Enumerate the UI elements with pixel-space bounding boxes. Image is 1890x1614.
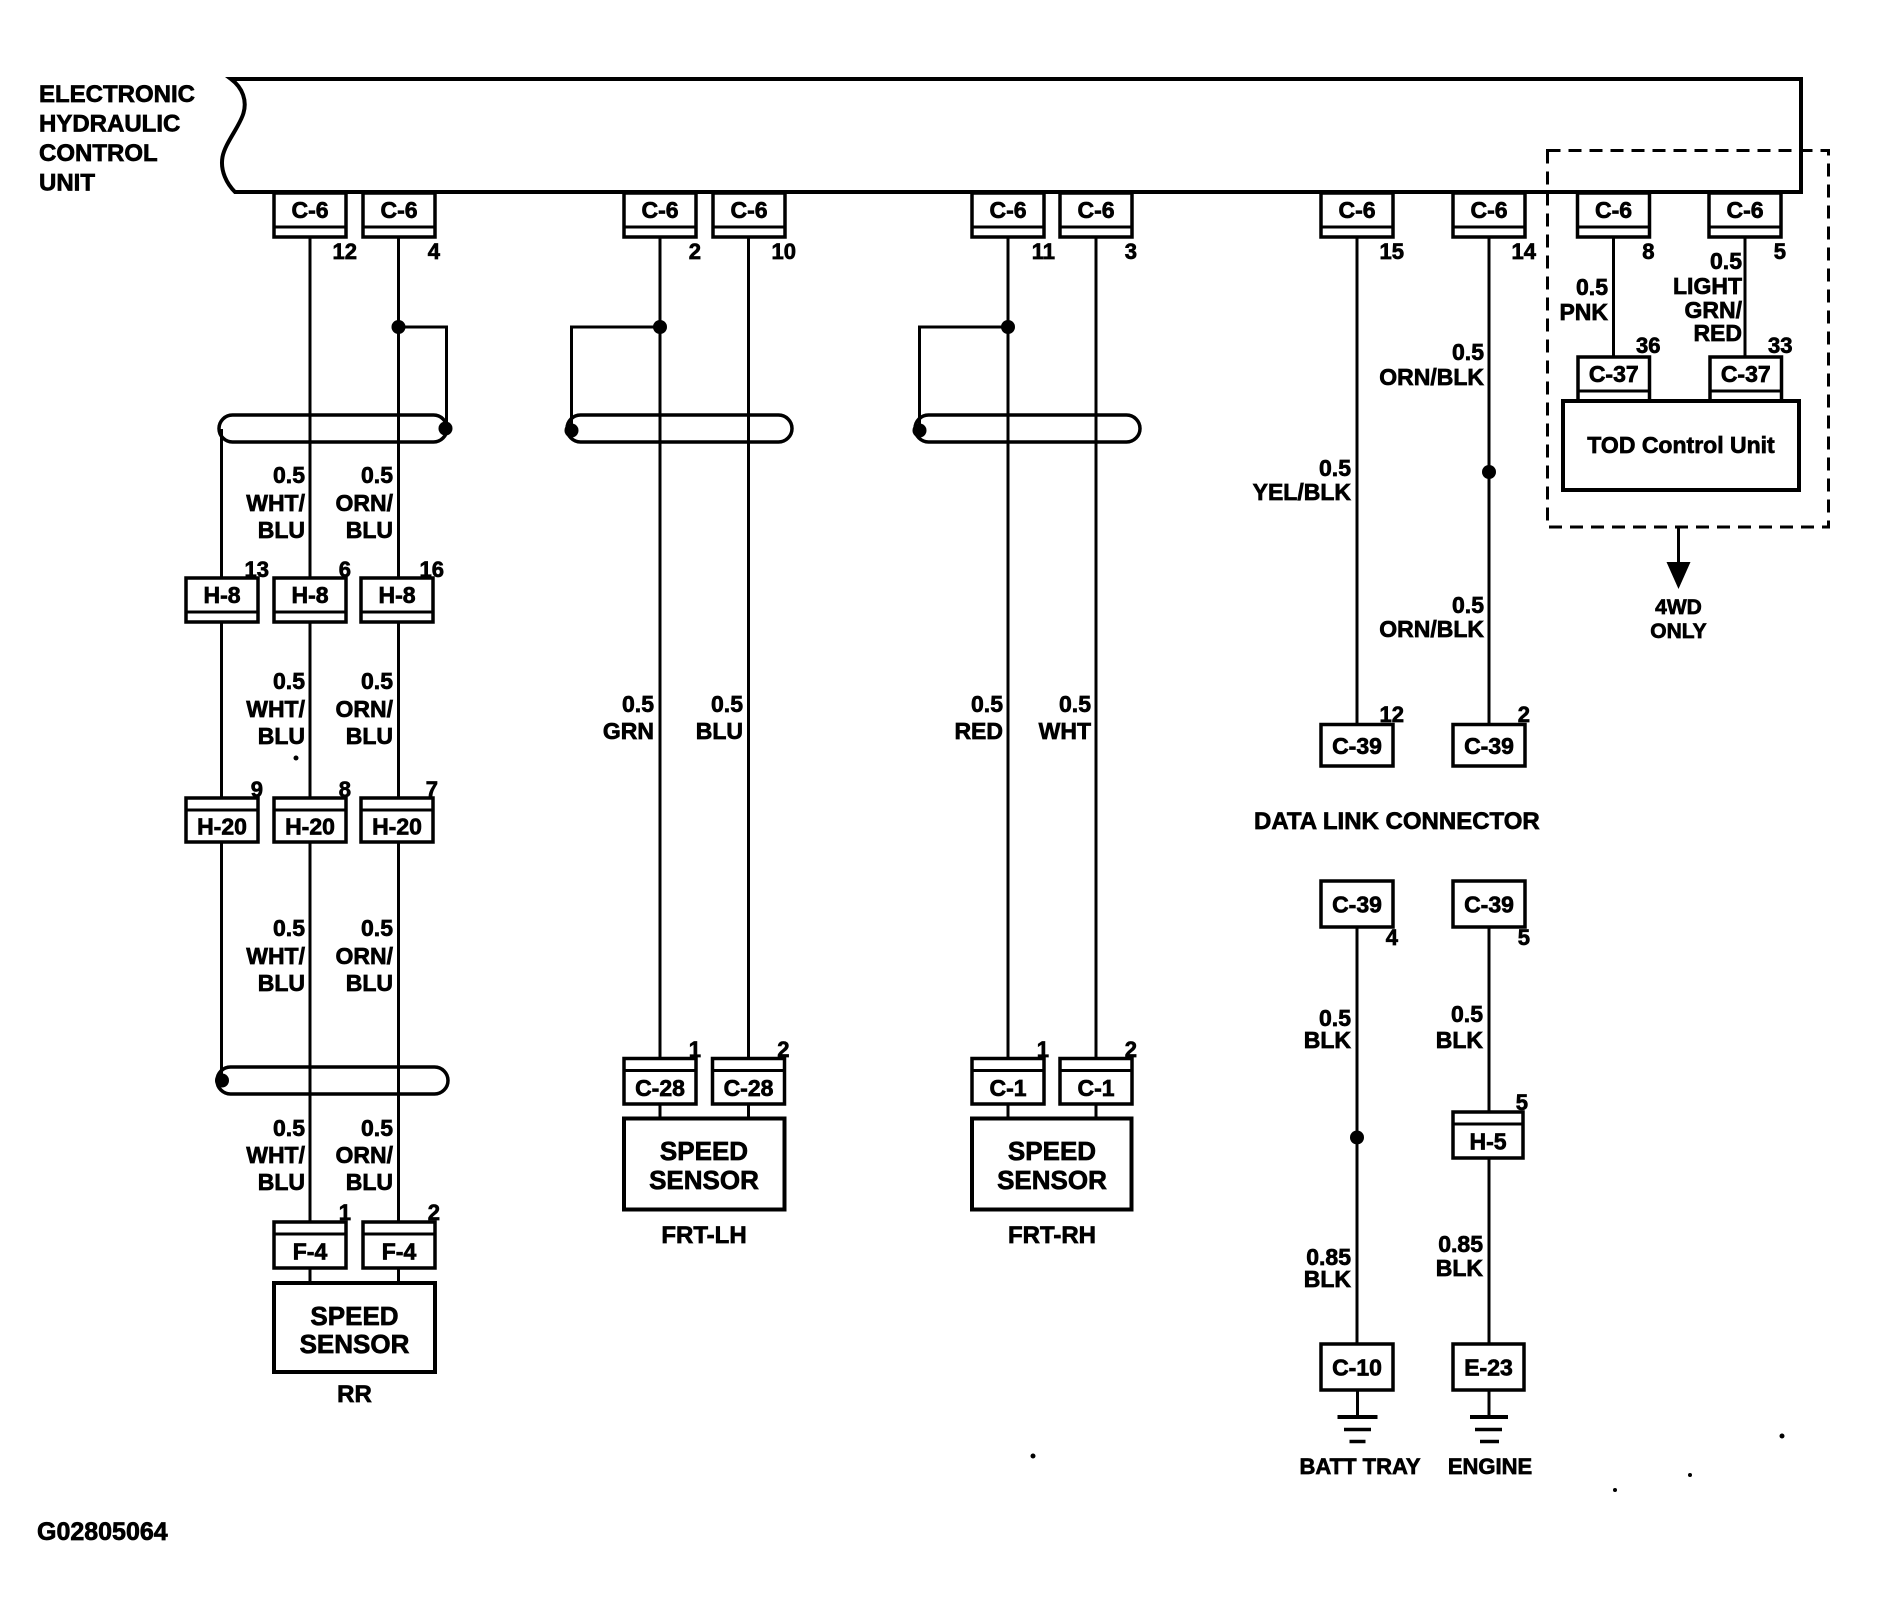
svg-text:5: 5 — [1516, 1090, 1528, 1115]
svg-text:C-37: C-37 — [1721, 361, 1771, 387]
svg-text:C-1: C-1 — [1077, 1075, 1114, 1101]
speed sensor FRT-LH box — [624, 1119, 785, 1210]
connector C-39 pin5 — [1453, 881, 1525, 927]
scan speck right of ENGINE ground — [1780, 1434, 1785, 1439]
svg-text:4: 4 — [428, 239, 441, 264]
svg-text:C-6: C-6 — [1338, 197, 1375, 223]
svg-text:BLU: BLU — [258, 723, 305, 749]
svg-text:PNK: PNK — [1559, 299, 1608, 325]
svg-text:1: 1 — [1037, 1037, 1049, 1062]
svg-text:H-8: H-8 — [291, 582, 328, 608]
speed sensor RR box — [274, 1283, 435, 1372]
connector E-23 — [1453, 1344, 1524, 1390]
svg-text:LIGHT: LIGHT — [1673, 273, 1742, 299]
value label 0.5 LIGHT GRN/RED — [1673, 248, 1743, 346]
value label 0.5 WHT/BLU (set 1) — [246, 462, 305, 543]
svg-text:WHT: WHT — [1039, 718, 1091, 744]
svg-text:2: 2 — [777, 1037, 789, 1062]
svg-text:0.5: 0.5 — [1452, 592, 1484, 618]
label 4WD ONLY — [1650, 596, 1706, 643]
svg-text:5: 5 — [1518, 925, 1530, 950]
svg-text:10: 10 — [772, 239, 796, 264]
svg-text:H-8: H-8 — [378, 582, 415, 608]
svg-text:0.5: 0.5 — [273, 1115, 305, 1141]
connector C-39 pin2 — [1453, 725, 1525, 767]
value label 0.5 BLK (right) — [1436, 1001, 1484, 1053]
shield pill P3 (FRT-LH) — [567, 415, 792, 442]
connector C-6 pin2 — [624, 193, 696, 237]
svg-text:C-6: C-6 — [1726, 197, 1763, 223]
svg-text:BLK: BLK — [1436, 1255, 1484, 1281]
svg-text:RED: RED — [1693, 320, 1742, 346]
svg-text:RR: RR — [337, 1381, 372, 1408]
wire branch FRT-LH shield — [572, 327, 661, 430]
svg-text:3: 3 — [1125, 239, 1137, 264]
svg-text:BLK: BLK — [1304, 1266, 1352, 1292]
svg-text:H-20: H-20 — [372, 814, 422, 840]
svg-text:BLU: BLU — [258, 517, 305, 543]
connector H-20 pin9 — [186, 798, 258, 842]
svg-text:ORN/: ORN/ — [336, 943, 394, 969]
scan speck near H-20 column — [294, 756, 299, 761]
svg-text:0.5: 0.5 — [273, 668, 305, 694]
connector C-6 pin8 — [1578, 193, 1650, 237]
svg-text:0.5: 0.5 — [361, 668, 393, 694]
arrow 4WD only — [1667, 527, 1691, 589]
junction dot at pill P3 left end — [565, 424, 579, 438]
svg-text:ONLY: ONLY — [1650, 620, 1706, 643]
connector H-8 pin16 — [361, 578, 433, 622]
svg-text:RED: RED — [954, 718, 1003, 744]
svg-text:2: 2 — [1125, 1037, 1137, 1062]
wire branch FRT-RH shield — [920, 327, 1009, 430]
value label 0.5 ORN/BLU (set 3) — [336, 915, 394, 996]
svg-text:ENGINE: ENGINE — [1448, 1454, 1532, 1479]
wire C-6 pin11 to C-1 pin1 (RED) — [1007, 237, 1010, 1119]
value label 0.5 GRN — [603, 691, 654, 744]
svg-text:C-28: C-28 — [724, 1075, 774, 1101]
connector C-6 pin4 — [363, 193, 435, 237]
svg-text:0.5: 0.5 — [361, 1115, 393, 1141]
connector C-39 pin12 — [1321, 725, 1393, 767]
wire C-6 pin4 to F-4 pin2 (ORN/BLU) — [397, 237, 400, 1283]
svg-text:13: 13 — [245, 557, 269, 582]
svg-text:C-6: C-6 — [641, 197, 678, 223]
svg-text:BLU: BLU — [258, 1169, 305, 1195]
svg-text:ORN/BLK: ORN/BLK — [1379, 364, 1484, 390]
svg-text:YEL/BLK: YEL/BLK — [1253, 479, 1352, 505]
svg-text:33: 33 — [1768, 333, 1792, 358]
junction dot on RED wire — [1001, 320, 1015, 334]
svg-text:2: 2 — [1518, 702, 1530, 727]
scan speck left of ENGINE label — [1613, 1488, 1617, 1492]
wire C-6 pin10 to C-28 pin2 (BLU) — [747, 237, 750, 1119]
svg-text:SPEED: SPEED — [1008, 1136, 1096, 1166]
scan speck below E-23 — [1688, 1473, 1692, 1477]
svg-text:BLK: BLK — [1304, 1027, 1352, 1053]
ground symbol ENGINE — [1470, 1390, 1508, 1442]
svg-text:36: 36 — [1636, 333, 1660, 358]
svg-text:ELECTRONIC: ELECTRONIC — [39, 81, 195, 108]
svg-text:C-39: C-39 — [1332, 892, 1382, 918]
svg-text:15: 15 — [1380, 239, 1404, 264]
svg-text:4WD: 4WD — [1655, 596, 1702, 619]
svg-text:12: 12 — [333, 239, 357, 264]
scan speck below FRT-RH — [1031, 1454, 1036, 1459]
svg-text:0.5: 0.5 — [273, 915, 305, 941]
connector C-6 pin15 — [1321, 193, 1393, 237]
value label 0.5 ORN/BLU (set 2) — [336, 668, 394, 749]
svg-text:0.5: 0.5 — [273, 462, 305, 488]
svg-text:0.5: 0.5 — [1451, 1001, 1483, 1027]
svg-text:CONTROL: CONTROL — [39, 140, 158, 167]
value label 0.5 WHT/BLU (set 2) — [246, 668, 305, 749]
connector C-6 pin11 — [972, 193, 1044, 237]
junction dot on GRN wire — [653, 320, 667, 334]
svg-text:BLK: BLK — [1436, 1027, 1484, 1053]
svg-text:E-23: E-23 — [1464, 1355, 1513, 1381]
connector F-4 pin2 — [363, 1222, 435, 1268]
svg-text:8: 8 — [1642, 239, 1654, 264]
svg-text:F-4: F-4 — [382, 1239, 417, 1265]
svg-text:6: 6 — [339, 557, 351, 582]
junction dot on ORN/BLK wire — [1482, 465, 1496, 479]
svg-text:ORN/: ORN/ — [336, 1142, 394, 1168]
svg-text:ORN/BLK: ORN/BLK — [1379, 616, 1484, 642]
svg-text:11: 11 — [1032, 239, 1055, 264]
svg-text:0.85: 0.85 — [1438, 1231, 1483, 1257]
junction dot on BLK wire — [1350, 1131, 1364, 1145]
svg-text:DATA LINK CONNECTOR: DATA LINK CONNECTOR — [1254, 808, 1540, 835]
junction dot at pill P2 left end — [215, 1074, 229, 1088]
value label 0.5 ORN/BLK (lower) — [1379, 592, 1484, 642]
value label 0.5 BLU — [696, 691, 743, 744]
wire C-6 pin15 to C-39 pin12 (YEL/BLK) — [1356, 237, 1359, 725]
electronic hydraulic control unit U1 (main box with torn left edge) — [222, 79, 1801, 192]
svg-text:0.5: 0.5 — [1710, 248, 1742, 274]
connector C-37 pin33 — [1710, 357, 1782, 401]
svg-text:0.5: 0.5 — [361, 462, 393, 488]
svg-text:0.5: 0.5 — [971, 691, 1003, 717]
svg-text:WHT/: WHT/ — [246, 1142, 305, 1168]
svg-text:TOD Control Unit: TOD Control Unit — [1587, 432, 1775, 458]
svg-text:C-6: C-6 — [989, 197, 1026, 223]
svg-text:SPEED: SPEED — [660, 1136, 748, 1166]
value label 0.5 ORN/BLK (upper) — [1379, 339, 1484, 390]
svg-text:0.5: 0.5 — [622, 691, 654, 717]
wire shield drain RR (x=221.5) — [220, 429, 223, 1081]
connector H-8 pin13 — [186, 578, 258, 622]
value label 0.5 PNK — [1559, 274, 1608, 325]
svg-text:1: 1 — [339, 1200, 351, 1225]
connector C-6 pin3 — [1060, 193, 1132, 237]
junction dot on ORN/BLU wire — [392, 320, 406, 334]
connector H-20 pin8 — [274, 798, 346, 842]
svg-text:8: 8 — [339, 777, 351, 802]
shield pill P4 (FRT-RH) — [915, 415, 1140, 442]
svg-text:G02805064: G02805064 — [37, 1518, 168, 1546]
svg-text:C-1: C-1 — [989, 1075, 1026, 1101]
svg-text:C-37: C-37 — [1589, 361, 1639, 387]
connector C-6 pin5 — [1709, 193, 1781, 237]
connector C-1 pin1 — [972, 1059, 1044, 1105]
svg-text:C-6: C-6 — [291, 197, 328, 223]
svg-text:WHT/: WHT/ — [246, 696, 305, 722]
svg-text:ORN/: ORN/ — [336, 490, 394, 516]
svg-text:FRT-LH: FRT-LH — [661, 1222, 746, 1249]
svg-text:H-20: H-20 — [197, 814, 247, 840]
svg-text:HYDRAULIC: HYDRAULIC — [39, 111, 180, 138]
svg-text:F-4: F-4 — [293, 1239, 328, 1265]
value label 0.5 WHT/BLU (set 3) — [246, 915, 305, 996]
svg-text:SPEED: SPEED — [310, 1301, 398, 1331]
value label 0.5 YEL/BLK — [1253, 455, 1352, 505]
svg-text:C-6: C-6 — [380, 197, 417, 223]
value label 0.85 BLK (left) — [1304, 1244, 1352, 1292]
svg-text:UNIT: UNIT — [39, 170, 95, 197]
connector C-28 pin1 — [624, 1059, 696, 1105]
junction dot at pill P4 left end — [913, 424, 927, 438]
svg-text:GRN: GRN — [603, 718, 654, 744]
svg-text:C-28: C-28 — [635, 1075, 685, 1101]
shield pill P1 (RR upper) — [219, 415, 447, 442]
svg-text:C-6: C-6 — [1470, 197, 1507, 223]
svg-text:SENSOR: SENSOR — [649, 1165, 759, 1195]
svg-text:BLU: BLU — [346, 723, 393, 749]
svg-text:2: 2 — [689, 239, 701, 264]
svg-text:4: 4 — [1386, 925, 1399, 950]
TOD Control Unit box — [1563, 401, 1799, 490]
svg-text:C-39: C-39 — [1332, 733, 1382, 759]
ground symbol BATT TRAY — [1338, 1390, 1378, 1442]
svg-text:12: 12 — [1380, 702, 1404, 727]
connector H-5 pin5 — [1453, 1112, 1523, 1158]
svg-text:0.5: 0.5 — [361, 915, 393, 941]
connector H-20 pin7 — [361, 798, 433, 842]
connector C-6 pin12 — [274, 193, 346, 237]
svg-text:BLU: BLU — [696, 718, 743, 744]
wire C-6 pin8 to C-37 pin36 (PNK) — [1612, 237, 1615, 357]
svg-text:SENSOR: SENSOR — [300, 1329, 410, 1359]
svg-text:7: 7 — [426, 777, 438, 802]
svg-text:1: 1 — [689, 1037, 701, 1062]
svg-text:0.5: 0.5 — [1319, 455, 1351, 481]
svg-text:0.5: 0.5 — [1452, 339, 1484, 365]
svg-text:WHT/: WHT/ — [246, 943, 305, 969]
value label 0.5 BLK (left) — [1304, 1005, 1352, 1053]
svg-text:9: 9 — [251, 777, 263, 802]
connector C-28 pin2 — [713, 1059, 785, 1105]
wire C-39 pin4 to C-10 (BLK) — [1356, 927, 1359, 1344]
svg-text:0.5: 0.5 — [1059, 691, 1091, 717]
value label 0.5 WHT/BLU (set 4) — [246, 1115, 305, 1195]
value label 0.5 WHT — [1039, 691, 1092, 744]
svg-text:0.5: 0.5 — [1576, 274, 1608, 300]
svg-text:H-5: H-5 — [1469, 1129, 1506, 1155]
value label 0.85 BLK (right) — [1436, 1231, 1484, 1281]
svg-text:BLU: BLU — [346, 517, 393, 543]
svg-text:BLU: BLU — [346, 1169, 393, 1195]
wire branch RR shield — [399, 327, 447, 429]
svg-text:C-10: C-10 — [1332, 1355, 1382, 1381]
svg-text:H-20: H-20 — [285, 814, 335, 840]
connector C-10 — [1321, 1344, 1393, 1390]
svg-text:C-39: C-39 — [1464, 892, 1514, 918]
svg-text:ORN/: ORN/ — [336, 696, 394, 722]
svg-text:FRT-RH: FRT-RH — [1008, 1222, 1096, 1249]
wire C-6 pin2 to C-28 pin1 (GRN) — [659, 237, 662, 1119]
wire C-6 pin14 to C-39 pin2 (ORN/BLK) — [1488, 237, 1491, 725]
value label 0.5 ORN/BLU (set 4) — [336, 1115, 394, 1195]
wire C-6 pin12 to F-4 pin1 (WHT/BLU) — [309, 237, 312, 1283]
svg-text:BATT TRAY: BATT TRAY — [1300, 1454, 1421, 1479]
connector C-6 pin10 — [713, 193, 785, 237]
svg-text:BLU: BLU — [346, 970, 393, 996]
connector F-4 pin1 — [274, 1222, 346, 1268]
svg-text:WHT/: WHT/ — [246, 490, 305, 516]
connector C-1 pin2 — [1060, 1059, 1132, 1105]
svg-text:C-6: C-6 — [730, 197, 767, 223]
connector C-39 pin4 — [1321, 881, 1393, 927]
shield pill P2 (RR lower) — [217, 1067, 448, 1094]
speed sensor FRT-RH box — [972, 1119, 1132, 1210]
svg-text:H-8: H-8 — [203, 582, 240, 608]
svg-text:5: 5 — [1774, 239, 1786, 264]
svg-text:14: 14 — [1512, 239, 1537, 264]
wire C-6 pin3 to C-1 pin2 (WHT) — [1095, 237, 1098, 1119]
svg-text:BLU: BLU — [258, 970, 305, 996]
label ELECTRONIC HYDRAULIC CONTROL UNIT — [39, 81, 195, 197]
svg-text:SENSOR: SENSOR — [997, 1165, 1107, 1195]
svg-text:0.5: 0.5 — [711, 691, 743, 717]
svg-text:C-6: C-6 — [1077, 197, 1114, 223]
wire C-6 pin5 to C-37 pin33 (LIGHT GRN/RED) — [1744, 237, 1747, 357]
svg-text:C-6: C-6 — [1595, 197, 1632, 223]
svg-text:C-39: C-39 — [1464, 733, 1514, 759]
connector C-37 pin36 — [1578, 357, 1650, 401]
wire C-39 pin5 to E-23 via H-5 (BLK) — [1488, 927, 1491, 1344]
svg-text:16: 16 — [420, 557, 444, 582]
connector C-6 pin14 — [1453, 193, 1525, 237]
svg-text:2: 2 — [428, 1200, 440, 1225]
junction dot at pill P1 right end — [439, 422, 453, 436]
value label 0.5 RED — [954, 691, 1003, 744]
dashed enclosure (4WD only section) — [1548, 151, 1829, 528]
value label 0.5 ORN/BLU (set 1) — [336, 462, 394, 543]
connector H-8 pin6 — [274, 578, 346, 622]
